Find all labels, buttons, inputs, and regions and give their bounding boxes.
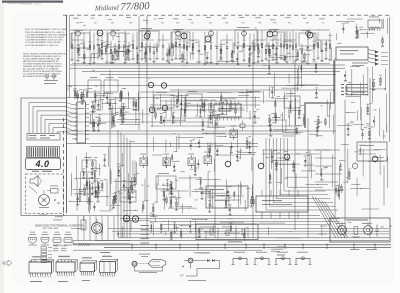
rf stage Q15 bbox=[300, 18, 315, 65]
wire bbox=[207, 142, 209, 150]
wire bbox=[101, 223, 103, 234]
value label bbox=[101, 41, 105, 44]
wire bbox=[67, 87, 69, 91]
module box 4 bbox=[171, 32, 190, 47]
microphone MC1 bbox=[39, 195, 50, 206]
rail y92 bbox=[140, 91, 262, 93]
wire bbox=[326, 100, 328, 117]
value label bbox=[125, 111, 129, 114]
value label bbox=[147, 45, 151, 48]
capacitor C33 bbox=[304, 157, 306, 165]
rf stage Q9 bbox=[203, 17, 218, 65]
wire bbox=[326, 41, 328, 49]
capacitor C87 bbox=[81, 92, 83, 104]
capacitor C31 bbox=[271, 152, 273, 162]
value label bbox=[343, 181, 347, 184]
capacitor C61 bbox=[92, 159, 94, 169]
trunk wire C bbox=[294, 60, 296, 230]
rf stage Q6 bbox=[155, 18, 170, 63]
wire bbox=[228, 191, 230, 207]
resistor R66 bbox=[88, 195, 90, 205]
wire bbox=[244, 200, 246, 211]
wire bbox=[238, 151, 256, 153]
wire bbox=[178, 177, 201, 179]
wire bbox=[177, 93, 179, 101]
wire bbox=[88, 177, 90, 204]
wire bbox=[143, 53, 145, 58]
wire bbox=[270, 149, 272, 169]
wire bbox=[207, 172, 209, 198]
svg-text:AS VIEWED FROM FRONT OF SET.: AS VIEWED FROM FRONT OF SET. bbox=[23, 75, 58, 78]
wire bbox=[94, 177, 96, 194]
resistor R49 bbox=[98, 44, 100, 56]
wire bbox=[160, 94, 162, 109]
value label bbox=[348, 81, 351, 84]
value label bbox=[323, 166, 327, 169]
display connector comb bbox=[27, 147, 60, 158]
wire bbox=[315, 157, 336, 159]
resistor R54 bbox=[248, 55, 250, 66]
heavy coax wire bbox=[305, 60, 334, 128]
wire bbox=[237, 184, 239, 207]
diagonal bundle bbox=[312, 196, 336, 238]
junction bbox=[360, 29, 361, 30]
wire bbox=[165, 100, 167, 119]
wire bbox=[277, 157, 291, 159]
value label bbox=[224, 99, 227, 102]
metal can transistor Q20 bbox=[205, 36, 211, 42]
wire bbox=[275, 114, 277, 123]
wire bbox=[178, 89, 180, 103]
control panel box bbox=[330, 218, 390, 242]
capacitor C58 bbox=[155, 110, 157, 119]
IF transformer T4 bbox=[204, 156, 212, 164]
wire bbox=[289, 114, 291, 126]
junction bbox=[206, 219, 207, 220]
value label bbox=[86, 48, 89, 51]
wire bbox=[124, 219, 150, 221]
resistor R53 bbox=[105, 46, 107, 55]
wire bbox=[282, 135, 294, 137]
wire bbox=[356, 23, 358, 29]
wire bbox=[112, 105, 114, 128]
wire bbox=[137, 92, 139, 111]
wire bbox=[274, 163, 300, 165]
value label bbox=[287, 52, 291, 55]
clarifier pot VR4 bbox=[352, 163, 357, 168]
resistor R6 bbox=[342, 25, 344, 34]
resistor R30 bbox=[166, 179, 168, 190]
squelch pot VR2 bbox=[338, 226, 347, 235]
capacitor C1 bbox=[101, 48, 103, 56]
value label bbox=[364, 126, 367, 129]
wire bbox=[116, 98, 135, 100]
wire bbox=[89, 122, 106, 124]
wire bbox=[219, 102, 221, 112]
resistor R39 bbox=[338, 187, 340, 195]
wire bbox=[369, 88, 386, 90]
metal can transistor Q19 bbox=[181, 33, 187, 39]
wire bbox=[216, 194, 229, 196]
capacitor C74 bbox=[315, 62, 317, 72]
pll unit box bbox=[196, 224, 258, 240]
audio amp IC U2 bbox=[256, 196, 308, 212]
wire bbox=[216, 154, 234, 156]
rail y65 bbox=[70, 64, 345, 66]
capacitor C81 bbox=[347, 124, 349, 135]
value label bbox=[271, 44, 275, 47]
capacitor C66 bbox=[170, 198, 172, 206]
resistor R85 bbox=[180, 229, 182, 239]
IF transformer T1 bbox=[140, 158, 148, 166]
rf stage Q3 bbox=[105, 19, 120, 63]
signal line top band bbox=[70, 29, 330, 31]
wire bbox=[251, 157, 253, 171]
capacitor C86 bbox=[97, 192, 99, 201]
wire bbox=[367, 67, 369, 96]
capacitor C54 bbox=[119, 90, 121, 101]
wire bbox=[181, 94, 183, 117]
wire bbox=[110, 99, 112, 109]
resistor R47 bbox=[198, 139, 200, 146]
value label bbox=[298, 124, 302, 127]
capacitor C53 bbox=[83, 90, 85, 101]
wire bbox=[163, 195, 165, 209]
resistor R4 bbox=[297, 50, 299, 59]
value label bbox=[79, 88, 82, 91]
junction bbox=[377, 157, 378, 158]
top band ground rail bbox=[72, 63, 330, 65]
wire bbox=[229, 147, 231, 163]
wire bbox=[179, 225, 191, 227]
value label bbox=[94, 156, 98, 159]
wire bbox=[168, 220, 170, 231]
wire bbox=[113, 50, 131, 52]
wire bbox=[89, 199, 91, 213]
wire bbox=[76, 180, 78, 211]
svg-text:ROTEL 800: ROTEL 800 bbox=[20, 1, 42, 6]
svg-text:L102 REPLACEMENT 4.7UH COIL: L102 REPLACEMENT 4.7UH COIL bbox=[25, 44, 59, 47]
wire bbox=[371, 67, 373, 103]
value label bbox=[100, 98, 104, 101]
junction bbox=[130, 181, 131, 182]
wire bbox=[387, 157, 389, 188]
resistor R61 bbox=[204, 100, 206, 110]
resistor R3 bbox=[166, 49, 168, 61]
wire bbox=[71, 228, 85, 230]
IC package outline 1 bbox=[29, 262, 52, 273]
wire bbox=[122, 106, 124, 124]
wire bbox=[165, 231, 167, 236]
capacitor C52 bbox=[121, 90, 123, 98]
wire bbox=[208, 103, 210, 112]
wire bbox=[351, 183, 360, 185]
resistor R74 bbox=[97, 120, 99, 130]
rail y122 bbox=[67, 121, 211, 123]
resistor R98 bbox=[77, 91, 79, 100]
wire bbox=[259, 222, 285, 224]
capacitor C3 bbox=[304, 52, 306, 60]
wire bbox=[99, 94, 101, 111]
resistor R19 bbox=[296, 127, 298, 134]
wire bbox=[184, 98, 186, 122]
wire bbox=[91, 53, 113, 55]
wire bbox=[297, 66, 299, 85]
rail y215 bbox=[67, 215, 321, 217]
wire bbox=[337, 125, 352, 127]
wire bbox=[170, 95, 189, 97]
value label bbox=[201, 136, 204, 139]
svg-text:BOTTOM VIEW: BOTTOM VIEW bbox=[43, 228, 59, 230]
test microphone illustration bbox=[132, 261, 137, 266]
resistor R31 bbox=[201, 187, 203, 198]
panel lamp bbox=[51, 189, 59, 194]
panel capacitor bbox=[376, 225, 378, 230]
wire bbox=[102, 102, 116, 104]
dashed top border bbox=[63, 14, 391, 16]
wire bbox=[90, 114, 92, 124]
value label bbox=[96, 116, 100, 119]
wire bbox=[123, 209, 138, 211]
wire bbox=[214, 142, 216, 149]
rf stage Q13 bbox=[267, 19, 282, 63]
junction bbox=[135, 210, 136, 211]
wire bbox=[306, 183, 328, 185]
svg-text:SEMICONDUCTOR TERMINAL CONNE: SEMICONDUCTOR TERMINAL CONNECTION bbox=[35, 224, 84, 227]
wire bbox=[289, 110, 301, 112]
rail y105 bbox=[150, 104, 260, 106]
junction bbox=[242, 92, 243, 93]
legend notes right bbox=[346, 83, 368, 86]
module box 5 bbox=[235, 30, 257, 46]
rf stage Q12 bbox=[252, 17, 267, 63]
wire bbox=[79, 188, 81, 202]
resistor R87 bbox=[198, 159, 200, 168]
hatch marks bbox=[79, 243, 81, 246]
value label bbox=[111, 98, 115, 101]
wire bbox=[160, 190, 188, 192]
capacitor C59 bbox=[91, 170, 93, 178]
svg-text:C103 REPLACEMENT .01UF 50V DI: C103 REPLACEMENT .01UF 50V DISC bbox=[25, 39, 64, 42]
wire bbox=[97, 180, 99, 195]
value label bbox=[327, 115, 331, 118]
scattered reference labels bbox=[196, 60, 198, 63]
resistor R27 bbox=[101, 181, 103, 191]
capacitor C80 bbox=[373, 116, 375, 127]
diode array bbox=[368, 50, 379, 53]
wire bbox=[281, 87, 299, 89]
ext speaker jack J3 bbox=[132, 216, 138, 222]
capacitor C7 bbox=[122, 114, 124, 122]
wire bbox=[386, 94, 388, 133]
wire bbox=[239, 92, 253, 94]
value label bbox=[202, 104, 205, 107]
rail y71 bbox=[82, 70, 340, 72]
capacitor C19 bbox=[316, 124, 318, 135]
capacitor C28 bbox=[225, 199, 227, 207]
trunk wire B bbox=[252, 40, 254, 238]
wire bbox=[333, 114, 335, 134]
audio IC pins top bbox=[261, 190, 263, 196]
dip footer labels bbox=[30, 280, 42, 283]
metal can transistor Q22 bbox=[307, 32, 313, 38]
wire bbox=[215, 114, 227, 116]
capacitor C64 bbox=[252, 192, 254, 203]
resistor R75 bbox=[112, 114, 114, 123]
value label bbox=[217, 115, 221, 118]
capacitor C48 bbox=[169, 47, 171, 55]
wire bbox=[294, 163, 296, 174]
resistor R55 bbox=[127, 46, 129, 57]
wire bbox=[233, 107, 244, 109]
resistor R46 bbox=[230, 142, 232, 153]
rail y114 bbox=[67, 113, 151, 115]
wire bbox=[362, 208, 379, 210]
wire bbox=[210, 142, 212, 151]
rail y134 bbox=[67, 133, 301, 135]
value label bbox=[345, 22, 349, 25]
wire bbox=[91, 110, 93, 129]
wire bbox=[383, 130, 385, 140]
wire bbox=[360, 82, 362, 120]
wire bbox=[211, 189, 213, 207]
module box 10 bbox=[154, 95, 174, 108]
wire bbox=[95, 94, 97, 110]
bottom rail b bbox=[118, 237, 389, 239]
wire bbox=[89, 188, 91, 210]
value label bbox=[169, 46, 172, 49]
wire bbox=[300, 66, 302, 88]
rf stage Q14 bbox=[282, 17, 297, 63]
PLL IC U1 bbox=[214, 104, 241, 117]
wire bbox=[114, 180, 136, 182]
wire bbox=[246, 89, 248, 112]
wire bbox=[226, 179, 228, 203]
resistor R79 bbox=[84, 186, 86, 195]
capacitor C36 bbox=[348, 170, 350, 178]
capacitor C30 bbox=[233, 191, 235, 198]
value label bbox=[239, 50, 242, 53]
resistor R59 bbox=[74, 90, 76, 97]
wire bbox=[282, 112, 284, 132]
resistor R37 bbox=[321, 169, 323, 179]
resistor R20 bbox=[289, 102, 291, 112]
wire bbox=[122, 153, 124, 166]
wire bbox=[176, 136, 178, 152]
wire bbox=[368, 160, 384, 162]
bottom rail a bbox=[95, 240, 389, 242]
wire bbox=[254, 43, 256, 50]
wire bbox=[101, 229, 103, 236]
wire bbox=[178, 137, 203, 139]
wire bbox=[128, 93, 130, 108]
speaker SP1 bbox=[30, 176, 38, 187]
junction bbox=[181, 225, 182, 226]
wire bbox=[320, 151, 322, 176]
wire bbox=[263, 149, 265, 165]
value label bbox=[95, 116, 99, 119]
wire bbox=[353, 123, 364, 125]
resistor R14 bbox=[200, 107, 202, 116]
wire bbox=[218, 60, 238, 62]
value label bbox=[120, 164, 124, 167]
capacitor C76 bbox=[174, 223, 176, 232]
capacitor C77 bbox=[171, 153, 173, 162]
value label bbox=[272, 121, 276, 124]
resistor R92 bbox=[298, 107, 300, 118]
rail y143 bbox=[67, 143, 259, 145]
wire bbox=[195, 221, 197, 232]
wire bbox=[329, 104, 331, 128]
driver to harness wires bbox=[67, 103, 73, 105]
wire bbox=[212, 110, 214, 125]
wire bbox=[78, 57, 98, 59]
panel diag wire bbox=[29, 186, 37, 193]
wire bbox=[216, 135, 226, 137]
wire bbox=[370, 26, 380, 28]
wire bbox=[135, 100, 137, 125]
wire bbox=[262, 91, 264, 103]
wire bbox=[384, 68, 386, 90]
IF transformer T3 bbox=[188, 158, 196, 166]
wire bbox=[152, 154, 162, 156]
wire bbox=[350, 66, 360, 68]
wire bbox=[142, 109, 144, 124]
wire bbox=[97, 196, 109, 198]
rf stage Q2 bbox=[88, 18, 103, 65]
wire bbox=[213, 225, 215, 231]
wire bbox=[185, 99, 208, 101]
wire bbox=[79, 171, 81, 201]
coax label bbox=[352, 62, 368, 65]
resistor R56 bbox=[192, 45, 194, 53]
wire bbox=[70, 180, 72, 196]
resistor R5 bbox=[355, 27, 357, 37]
wire bbox=[117, 51, 126, 53]
capacitor C10 bbox=[135, 100, 137, 110]
value label bbox=[251, 52, 254, 55]
capacitor C26 bbox=[200, 177, 202, 188]
value label bbox=[211, 197, 215, 200]
package stack bbox=[41, 247, 47, 249]
metal can transistor Q21 bbox=[267, 31, 273, 37]
wire bbox=[336, 20, 355, 22]
trunk wire H bbox=[369, 78, 371, 238]
connector jacks row bbox=[233, 258, 247, 264]
trunk wire E bbox=[307, 118, 309, 238]
wire bbox=[249, 111, 251, 120]
resistor R28 bbox=[91, 182, 93, 194]
value label bbox=[271, 112, 274, 115]
wire bbox=[208, 151, 210, 156]
rail y75 bbox=[100, 74, 336, 76]
capacitor C46 bbox=[275, 49, 277, 60]
resistor R9 bbox=[97, 101, 99, 109]
value label bbox=[319, 121, 323, 124]
resistor R2 bbox=[125, 48, 127, 59]
value label bbox=[212, 110, 216, 113]
value label bbox=[342, 159, 345, 162]
jack labels column bbox=[141, 224, 150, 227]
capacitor C22 bbox=[123, 180, 125, 191]
rail y150 bbox=[262, 149, 330, 151]
svg-text:R101,102 REPLACEMENT 1/4W 5%: R101,102 REPLACEMENT 1/4W 5% CARB bbox=[25, 28, 67, 31]
wire bbox=[94, 54, 96, 59]
resistor R38 bbox=[341, 184, 343, 194]
metal can transistor Q17 bbox=[97, 30, 103, 36]
module box 12 bbox=[284, 96, 300, 108]
low can transistor a bbox=[225, 161, 231, 167]
